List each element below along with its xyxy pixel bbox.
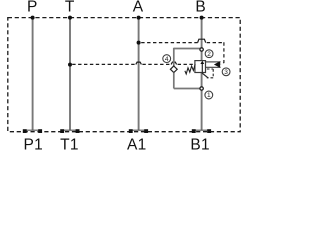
junction node B <box>200 16 204 20</box>
drain line final segment to spring chamber <box>178 63 195 65</box>
wire hop over B line <box>198 39 206 42</box>
wire branch: lower horizontal (node 1 side) <box>174 88 200 90</box>
junction node T <box>68 16 72 20</box>
svg-text:1: 1 <box>207 92 211 99</box>
svg-text:B: B <box>195 0 206 15</box>
svg-text:3: 3 <box>224 69 228 76</box>
manifold boundary (dashed enclosure) <box>8 18 240 132</box>
svg-text:T1: T1 <box>60 137 79 154</box>
wire B line (B to B1) <box>201 18 203 131</box>
junction node on T line (drain tap) <box>68 63 72 67</box>
orifice (diamond) <box>170 66 177 73</box>
pilot line continued to right corner <box>207 42 224 44</box>
internal pilot stub (diagonal) <box>202 73 208 78</box>
drain line continued <box>142 63 171 65</box>
port number 4 <box>163 55 171 63</box>
valve flow line through body <box>201 63 203 73</box>
svg-text:P1: P1 <box>24 137 44 154</box>
drain line from T to valve spring chamber (dashed) <box>72 63 136 65</box>
svg-text:A1: A1 <box>127 137 147 154</box>
svg-text:4: 4 <box>165 56 169 63</box>
node ring 1 (on B line below valve) <box>200 87 203 90</box>
wire P line (P to P1) <box>32 18 34 131</box>
pilot line from A to valve port 3 (dashed, hops over B line) <box>141 42 197 44</box>
wire A line (A to A1) <box>138 18 140 131</box>
pilot channel to port 3 (lower line) <box>206 66 221 68</box>
svg-text:2: 2 <box>207 51 211 58</box>
node ring 2 (on B line above valve) <box>200 48 203 51</box>
wire branch: upper horizontal (node 2 side) <box>174 48 200 50</box>
port A1 marker (bar + squares) <box>130 129 147 131</box>
wire T line (T to T1) <box>69 18 71 131</box>
pilot piston (filled triangle pointing left) <box>214 61 220 68</box>
svg-text:T: T <box>65 0 75 15</box>
svg-text:B1: B1 <box>190 137 210 154</box>
internal pilot loop (dashed bracket) <box>207 68 213 70</box>
port number 3 <box>222 68 230 76</box>
pilot line vertical drop to port 3 <box>221 42 224 64</box>
junction node on A line (pilot tap) <box>137 41 141 45</box>
valve check arrow (points up) <box>200 61 204 64</box>
wire branch: vertical to orifice <box>173 48 175 67</box>
valve U1: counterbalance cartridge body <box>195 61 206 73</box>
wire branch: vertical below orifice <box>173 73 175 89</box>
port number 2 <box>205 50 213 58</box>
svg-text:P: P <box>27 0 38 15</box>
valve spring (adjustable, lower-left) <box>185 64 195 74</box>
port P1 marker (bar + squares) <box>24 129 41 131</box>
port T1 marker (bar + squares) <box>62 129 79 131</box>
svg-text:A: A <box>133 0 144 15</box>
wire hop over branch line <box>171 62 177 64</box>
junction node P <box>31 16 35 20</box>
pilot channel to port 3 (upper line) <box>206 61 221 63</box>
port B1 marker (bar + squares) <box>193 129 210 131</box>
junction node A <box>137 16 141 20</box>
port number 1 <box>205 91 213 99</box>
wire hop over A line <box>136 62 142 64</box>
